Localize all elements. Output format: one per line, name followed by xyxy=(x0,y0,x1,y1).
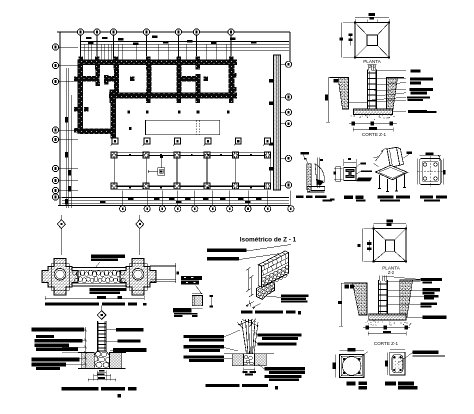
labels below beam xyxy=(89,288,126,291)
top dimension band xyxy=(81,41,289,43)
ground surface lines xyxy=(330,77,339,79)
wall top face strip xyxy=(258,251,288,267)
dims below xyxy=(96,371,98,381)
svg-text:CORTE Z-1: CORTE Z-1 xyxy=(374,341,399,346)
soil dots under footing xyxy=(379,115,380,116)
dim rows xyxy=(363,327,410,329)
caption bars xyxy=(241,311,253,314)
square column section xyxy=(332,348,368,389)
wall column stubs xyxy=(79,57,84,62)
stone course lines xyxy=(262,257,289,271)
labels above beam xyxy=(91,255,125,258)
course joint ticks row2 xyxy=(262,271,265,276)
wall face parallelogram xyxy=(262,253,289,288)
extension lines to right xyxy=(150,264,176,266)
column dowels xyxy=(368,65,370,71)
stub below left room wall xyxy=(111,134,117,138)
CORTE Z-1 footing section bottom xyxy=(338,276,447,347)
note text block xyxy=(181,276,202,294)
caption bars stone footing xyxy=(61,387,136,398)
right column cross xyxy=(120,259,156,296)
door gap in sub wall xyxy=(100,76,104,82)
left grid bubbles column xyxy=(52,44,58,50)
label text bars right xyxy=(411,70,421,73)
left soil wall xyxy=(338,78,349,110)
top face division ticks xyxy=(259,264,262,266)
dimension rows under footing xyxy=(349,123,397,125)
caption bars xyxy=(45,303,99,306)
dim ticks on grey wall xyxy=(269,79,274,82)
left dim xyxy=(327,78,329,123)
dim line below xyxy=(45,297,144,299)
column shaft xyxy=(96,321,98,351)
column with ties xyxy=(378,280,380,314)
label bars right xyxy=(421,278,442,281)
wall left end face xyxy=(258,265,261,288)
footing slab xyxy=(369,314,406,320)
isometric view of footing Z-1 xyxy=(207,237,308,315)
soil dots below xyxy=(375,325,376,326)
leader lines over wall top xyxy=(247,245,292,252)
right label bars xyxy=(281,294,308,297)
left labels xyxy=(183,335,224,338)
left column cross xyxy=(42,259,78,296)
footing slab xyxy=(354,109,393,115)
column with ties xyxy=(367,70,369,110)
small anchor detail xyxy=(192,293,213,308)
leaders xyxy=(383,276,421,280)
PLANTA Z-2 footing plan xyxy=(357,220,407,276)
stone flare xyxy=(88,351,116,368)
caption xyxy=(205,384,239,387)
base plate rhombus xyxy=(376,165,408,180)
CORTE Z-1 footing section top xyxy=(325,65,437,138)
iso dim arrows xyxy=(376,151,384,162)
svg-text:Z-2: Z-2 xyxy=(388,270,395,275)
dims below xyxy=(243,368,245,374)
iso dimension arrows left xyxy=(247,269,249,291)
left soil wall xyxy=(353,283,368,315)
right labels bottom xyxy=(264,367,305,370)
bottom grid bubbles row xyxy=(120,206,126,212)
wooden pole footing detail xyxy=(183,319,305,390)
grey double wall right side xyxy=(274,55,281,190)
svg-text:CORTE Z-1: CORTE Z-1 xyxy=(362,132,387,137)
small center detail in lower rectangle xyxy=(158,168,165,176)
detail B column-beam plate xyxy=(330,158,372,202)
top grid bubbles row xyxy=(77,29,83,35)
foundation beam plan detail xyxy=(42,255,179,306)
left dim xyxy=(340,283,342,326)
leader to right labels xyxy=(267,296,281,298)
svg-text:Isométrico de Z - 1: Isométrico de Z - 1 xyxy=(240,237,297,244)
left dim vertical xyxy=(85,327,87,368)
ground block with crosshatch xyxy=(232,354,243,366)
poles xyxy=(242,321,247,354)
hatched walls of upper building xyxy=(78,60,238,66)
left label block of stone footing xyxy=(31,327,83,370)
small ticks on beam edges xyxy=(129,154,131,156)
plan boundary frame xyxy=(57,31,290,33)
left vertical dimension lines xyxy=(65,68,67,208)
beam with stone fill xyxy=(72,267,126,269)
interior grid verticals xyxy=(145,155,147,186)
right labels top xyxy=(258,333,302,336)
section marker diamonds with drop lines xyxy=(60,215,62,255)
column symbols lower building xyxy=(111,152,117,158)
right grid bubbles column xyxy=(285,61,291,67)
base slab outline xyxy=(257,282,275,300)
detail D base plate plan xyxy=(417,152,447,201)
left label bars xyxy=(207,249,247,253)
small leader right xyxy=(403,155,409,159)
vertical gusset plates xyxy=(387,147,400,167)
detail A scupper section xyxy=(296,152,332,202)
label bars under anchor detail xyxy=(173,308,197,317)
caption bars detail C xyxy=(377,196,393,199)
course joint ticks row1 xyxy=(263,265,266,270)
right soil wall xyxy=(400,280,413,317)
diamond marker xyxy=(97,311,106,320)
right soil wall xyxy=(387,78,398,110)
ground blocks xyxy=(82,353,95,369)
right labels of stone footing xyxy=(106,328,146,352)
dims PLANTA Z-1 xyxy=(355,17,389,19)
interior column dots xyxy=(127,111,130,114)
bottom axis arrows xyxy=(246,302,254,306)
stone masonry footing section xyxy=(62,306,126,382)
planter rectangle xyxy=(146,120,220,135)
column footing markers row xyxy=(112,138,118,144)
lower building rectangle xyxy=(114,153,270,190)
anchor legs xyxy=(379,175,381,189)
detail C anchor bolt isometric xyxy=(374,147,413,201)
main foundation plan xyxy=(52,29,294,255)
rectangular column section xyxy=(385,350,445,390)
PLANTA Z-1 footing plan xyxy=(340,13,391,69)
bottom dimension band xyxy=(62,197,289,199)
base stones xyxy=(258,289,262,292)
rubble stones on wall face xyxy=(262,277,266,280)
leader lines to labels xyxy=(372,69,406,72)
